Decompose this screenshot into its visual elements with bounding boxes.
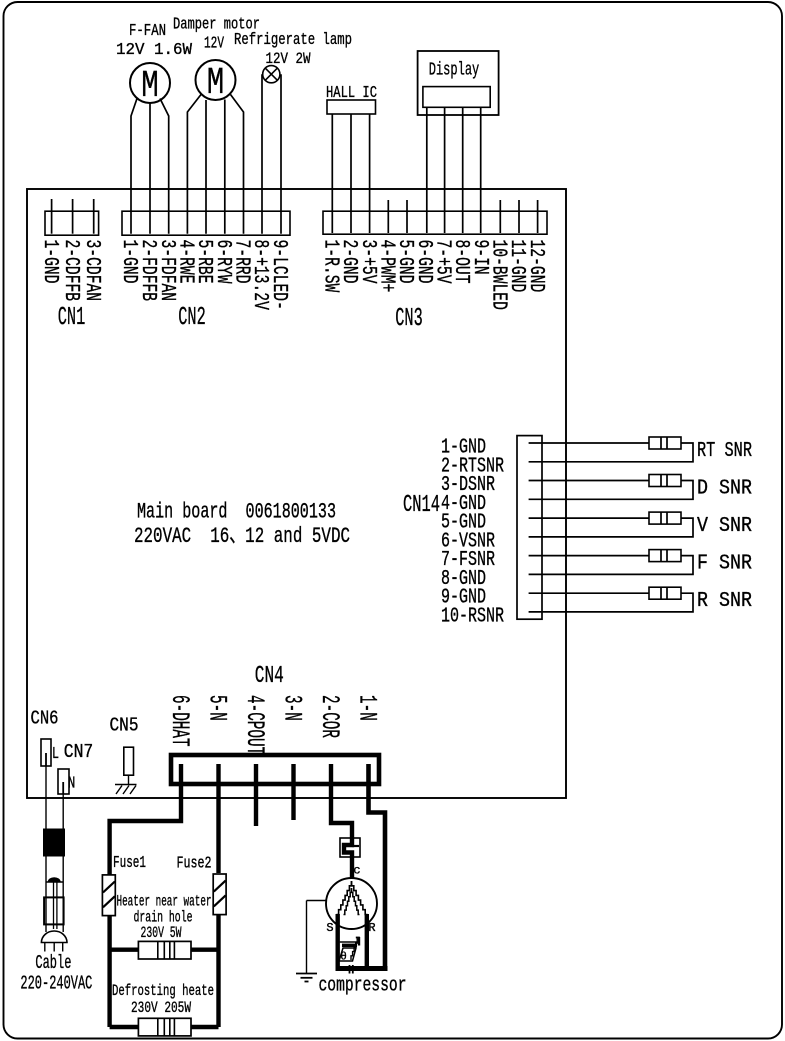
connector CN5 bbox=[124, 747, 134, 775]
lamp refrigerate lamp bbox=[263, 66, 280, 83]
sensor V SNR wiring loop bbox=[529, 518, 693, 537]
cable wire N bbox=[62, 856, 64, 932]
svg-text:CN7: CN7 bbox=[64, 741, 94, 763]
wire hall IC to CN3 pin2 bbox=[350, 114, 352, 233]
thermistor D SNR bbox=[649, 475, 681, 487]
pin CN6 bbox=[45, 753, 47, 766]
svg-text:220VAC 16、12 and 5VDC: 220VAC 16、12 and 5VDC bbox=[134, 523, 350, 549]
wire display to CN3 pin7 bbox=[444, 107, 446, 233]
thermistor R SNR bbox=[649, 587, 681, 599]
cable wire L bbox=[45, 856, 47, 932]
ground symbol at compressor bbox=[296, 973, 317, 975]
svg-text:CN14: CN14 bbox=[403, 492, 440, 519]
cable ferrite block bbox=[44, 829, 65, 856]
hall IC block bbox=[327, 100, 376, 114]
cable strain dome bbox=[48, 878, 60, 882]
svg-text:Display: Display bbox=[429, 61, 480, 81]
wire to drain heater left bbox=[110, 948, 139, 952]
wire F-FAN lead 2 to CN2 pin2 bbox=[149, 103, 151, 234]
svg-text:3-CDFAN: 3-CDFAN bbox=[80, 240, 103, 302]
svg-text:compressor: compressor bbox=[319, 975, 407, 998]
wire CN7 N to cable bbox=[62, 794, 64, 829]
svg-text:V SNR: V SNR bbox=[697, 515, 752, 538]
svg-text:12-GND: 12-GND bbox=[524, 240, 547, 293]
overload protector on C wire bbox=[340, 838, 360, 857]
pin stub CN3 bbox=[387, 200, 389, 233]
svg-text:M: M bbox=[141, 65, 159, 108]
wire lamp lead 2 to CN2 pin9 bbox=[280, 74, 282, 234]
wire display to CN3 pin9 bbox=[480, 107, 482, 233]
svg-text:CN1: CN1 bbox=[58, 302, 86, 332]
display block bbox=[418, 51, 499, 115]
fuse F2 bbox=[213, 874, 226, 915]
wire Fuse2 down to heaters bbox=[216, 915, 220, 1027]
cable center pin left edge bbox=[53, 882, 55, 929]
connector CN2 bbox=[122, 211, 290, 235]
pin stub CN3 bbox=[406, 200, 408, 233]
svg-text:6-DHAT: 6-DHAT bbox=[165, 695, 194, 747]
svg-text:S: S bbox=[326, 921, 333, 935]
svg-text:4-CPOUT: 4-CPOUT bbox=[240, 695, 269, 755]
connector CN14 bbox=[517, 436, 542, 620]
wire CN4 pin5 N to Fuse2 bbox=[216, 764, 220, 873]
heater drain hole heater bbox=[138, 941, 191, 959]
cable center pin right edge bbox=[56, 882, 58, 929]
wire to defrost heater right bbox=[191, 1025, 219, 1029]
wire display to CN3 pin6 bbox=[426, 107, 428, 233]
wire hall IC to CN3 pin1 bbox=[331, 114, 333, 233]
plug prong 1 bbox=[44, 943, 46, 952]
wire F-FAN lead 1 to CN2 pin1 bbox=[131, 99, 137, 234]
plug prong 3 bbox=[62, 943, 64, 952]
svg-text:1-N: 1-N bbox=[352, 695, 381, 721]
pin CN7 bbox=[62, 782, 64, 794]
heater defrosting heater bbox=[138, 1018, 191, 1036]
wire damper lead 2 to CN2 pin5 bbox=[205, 100, 207, 234]
svg-text:12V 1.6W: 12V 1.6W bbox=[116, 41, 193, 60]
cable crossbar bbox=[46, 881, 63, 883]
svg-text:Cable: Cable bbox=[35, 952, 71, 974]
thermistor V SNR bbox=[649, 512, 681, 524]
wire CN4 pin3 N stub bbox=[291, 764, 295, 820]
plug prong 2 bbox=[53, 943, 55, 952]
ground chassis symbol below CN5 bbox=[115, 784, 137, 786]
wire compressor case to ground bbox=[307, 900, 327, 902]
svg-text:2-CDFFB: 2-CDFFB bbox=[59, 240, 82, 302]
tick on bottom bus 2 bbox=[352, 965, 354, 974]
wire to drain heater right bbox=[191, 948, 219, 952]
svg-text:1-GND: 1-GND bbox=[38, 240, 61, 284]
overload contact tick bbox=[352, 845, 359, 847]
svg-text:CN5: CN5 bbox=[110, 715, 139, 737]
starting device PTC relay bbox=[340, 941, 360, 943]
wire CN4 pin4 CPOUT stub bbox=[254, 764, 258, 826]
svg-text:Fuse1: Fuse1 bbox=[113, 854, 146, 873]
svg-text:R SNR: R SNR bbox=[697, 590, 752, 613]
svg-text:Refrigerate lamp: Refrigerate lamp bbox=[234, 31, 352, 50]
wire damper lead 1 to CN2 pin4 bbox=[187, 95, 201, 234]
svg-text:RT SNR: RT SNR bbox=[697, 440, 752, 463]
svg-text:CN3: CN3 bbox=[395, 303, 423, 333]
plug body bbox=[44, 897, 64, 924]
svg-text:10-RSNR: 10-RSNR bbox=[441, 605, 504, 628]
svg-text:F SNR: F SNR bbox=[697, 553, 752, 576]
connector CN3 bbox=[323, 211, 547, 234]
motor M2 damper motor bbox=[196, 60, 236, 100]
motor M1 F-FAN bbox=[130, 63, 170, 103]
pin CN1-2 bbox=[72, 199, 74, 234]
wire compressor R terminal bbox=[365, 914, 369, 969]
wire CN4 pin1 N right loop to compressor bbox=[369, 764, 386, 969]
svg-text:N: N bbox=[68, 775, 76, 794]
wire hall IC to CN3 pin3 bbox=[369, 114, 371, 233]
sensor RT SNR wiring loop bbox=[529, 443, 693, 462]
pin stub CN3 bbox=[518, 200, 520, 233]
svg-text:230V 205W: 230V 205W bbox=[131, 999, 191, 1017]
wire F-FAN lead 3 to CN2 pin3 bbox=[160, 99, 169, 234]
svg-text:CN6: CN6 bbox=[31, 708, 59, 730]
sensor F SNR wiring loop bbox=[529, 556, 693, 575]
connector CN7 bbox=[58, 769, 69, 794]
wire Fuse1 down to heaters bbox=[107, 916, 111, 1027]
svg-text:M: M bbox=[207, 62, 225, 105]
plug cap dome bbox=[41, 931, 67, 943]
svg-text:CN4: CN4 bbox=[255, 663, 284, 690]
compressor windings bbox=[337, 881, 352, 915]
wire CN5 to ground bbox=[128, 775, 130, 784]
svg-text:c: c bbox=[353, 864, 360, 878]
svg-text:9-LCLED-: 9-LCLED- bbox=[267, 240, 290, 310]
svg-text:220-240VAC: 220-240VAC bbox=[20, 973, 92, 995]
svg-text:R: R bbox=[368, 921, 375, 935]
svg-text:D SNR: D SNR bbox=[697, 478, 752, 501]
pin CN1-3 bbox=[93, 199, 95, 234]
wire CN4 pin2 COR to overload and compressor C bbox=[331, 764, 352, 878]
fuse F1 bbox=[102, 875, 115, 916]
wire CN6 L to cable bbox=[45, 766, 47, 829]
wire lamp lead 1 to CN2 pin8 bbox=[261, 74, 263, 234]
wire damper lead 3 to CN2 pin6 bbox=[224, 100, 226, 234]
wire CN4 pin6 DHAT to Fuse1 bbox=[110, 764, 181, 875]
thermistor F SNR bbox=[649, 550, 681, 562]
svg-text:θ: θ bbox=[340, 952, 347, 964]
thermistor RT SNR bbox=[649, 437, 681, 449]
svg-text:Defrosting heate: Defrosting heate bbox=[112, 982, 214, 1000]
svg-text:3-N: 3-N bbox=[277, 695, 306, 721]
wire compressor bottom bus bbox=[336, 966, 388, 971]
svg-text:CN2: CN2 bbox=[178, 302, 206, 332]
svg-text:230V 5W: 230V 5W bbox=[141, 924, 182, 942]
pin stub CN3 bbox=[537, 200, 539, 233]
tick on bottom bus 1 bbox=[349, 965, 351, 974]
wire damper lead 4 to CN2 pin7 bbox=[231, 95, 244, 234]
svg-text:F-FAN: F-FAN bbox=[129, 22, 166, 41]
connector CN1 bbox=[45, 211, 99, 235]
compressor motor circle bbox=[326, 878, 377, 929]
pin stub CN3 bbox=[499, 200, 501, 233]
svg-text:Main board 0061800133: Main board 0061800133 bbox=[137, 499, 336, 525]
wire to defrost heater left bbox=[110, 1025, 139, 1029]
svg-text:5-N: 5-N bbox=[202, 695, 231, 721]
wire display to CN3 pin8 bbox=[462, 107, 464, 233]
svg-text:Fuse2: Fuse2 bbox=[177, 855, 212, 874]
sensor D SNR wiring loop bbox=[529, 481, 693, 500]
svg-text:2-COR: 2-COR bbox=[315, 695, 344, 738]
wire compressor S terminal bbox=[336, 914, 340, 969]
main board outline bbox=[27, 189, 566, 798]
svg-text:L: L bbox=[52, 745, 59, 764]
pin CN1-1 bbox=[51, 199, 53, 234]
svg-text:12V: 12V bbox=[204, 35, 225, 54]
connector CN4 housing bbox=[171, 755, 379, 784]
connector CN6 bbox=[41, 739, 51, 766]
sensor R SNR wiring loop bbox=[529, 593, 693, 612]
display connector block bbox=[423, 87, 490, 108]
